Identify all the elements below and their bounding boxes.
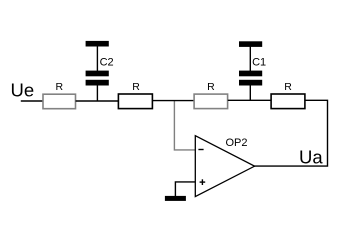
wire C1 stem upper (capacitor to ground bar) <box>249 46 251 71</box>
svg-text:Ue: Ue <box>11 80 35 101</box>
resistor R2 <box>118 94 152 109</box>
wire non-inverting input to ground <box>175 182 195 196</box>
label R (R1 value) <box>56 81 64 93</box>
capacitor C1 plates <box>239 71 262 86</box>
wire C2 stem lower (junction to capacitor plate) <box>96 85 98 101</box>
label R (R3 value) <box>207 81 215 93</box>
wire C1 stem lower (junction to capacitor plate) <box>249 85 251 100</box>
wire feedback to inverting input (grey) <box>174 101 195 150</box>
wire R2 to R3 (junction node to op-amp inverting input) <box>153 100 194 102</box>
op-amp U1 (OP2) triangle <box>195 136 254 197</box>
svg-text:R: R <box>207 81 215 93</box>
svg-text:R: R <box>132 81 140 93</box>
label R (R2 value) <box>132 81 140 93</box>
node Ue (input) <box>11 80 35 101</box>
capacitor C2 plates <box>86 71 109 86</box>
pin label plus (non-inverting input) <box>200 179 206 185</box>
pin label minus (inverting input) <box>198 149 203 151</box>
wire R1 to R2 (junction node with C2) <box>76 100 119 102</box>
label OP2 <box>226 137 248 149</box>
resistor R3 <box>194 94 228 109</box>
ground bar above C1 <box>239 41 262 47</box>
svg-text:C2: C2 <box>100 56 114 68</box>
label C2 <box>100 56 114 68</box>
wire R4 to output corner and op-amp output <box>254 100 327 166</box>
label R (R4 value) <box>284 81 292 93</box>
wire C2 stem upper (capacitor to ground bar) <box>96 46 98 71</box>
svg-text:OP2: OP2 <box>226 137 248 149</box>
ground bar above C2 <box>86 41 109 47</box>
label C1 <box>252 57 266 69</box>
svg-text:R: R <box>56 81 64 93</box>
resistor R4 <box>271 94 305 109</box>
svg-text:C1: C1 <box>252 57 266 69</box>
wire R3 to R4 (junction node with C1) <box>228 99 271 101</box>
node Ua (output) <box>299 147 323 168</box>
ground bar at non-inverting input <box>165 196 186 201</box>
resistor R1 <box>43 94 76 109</box>
svg-text:R: R <box>284 81 292 93</box>
svg-text:Ua: Ua <box>299 147 323 168</box>
wire input to R1 <box>21 100 43 102</box>
